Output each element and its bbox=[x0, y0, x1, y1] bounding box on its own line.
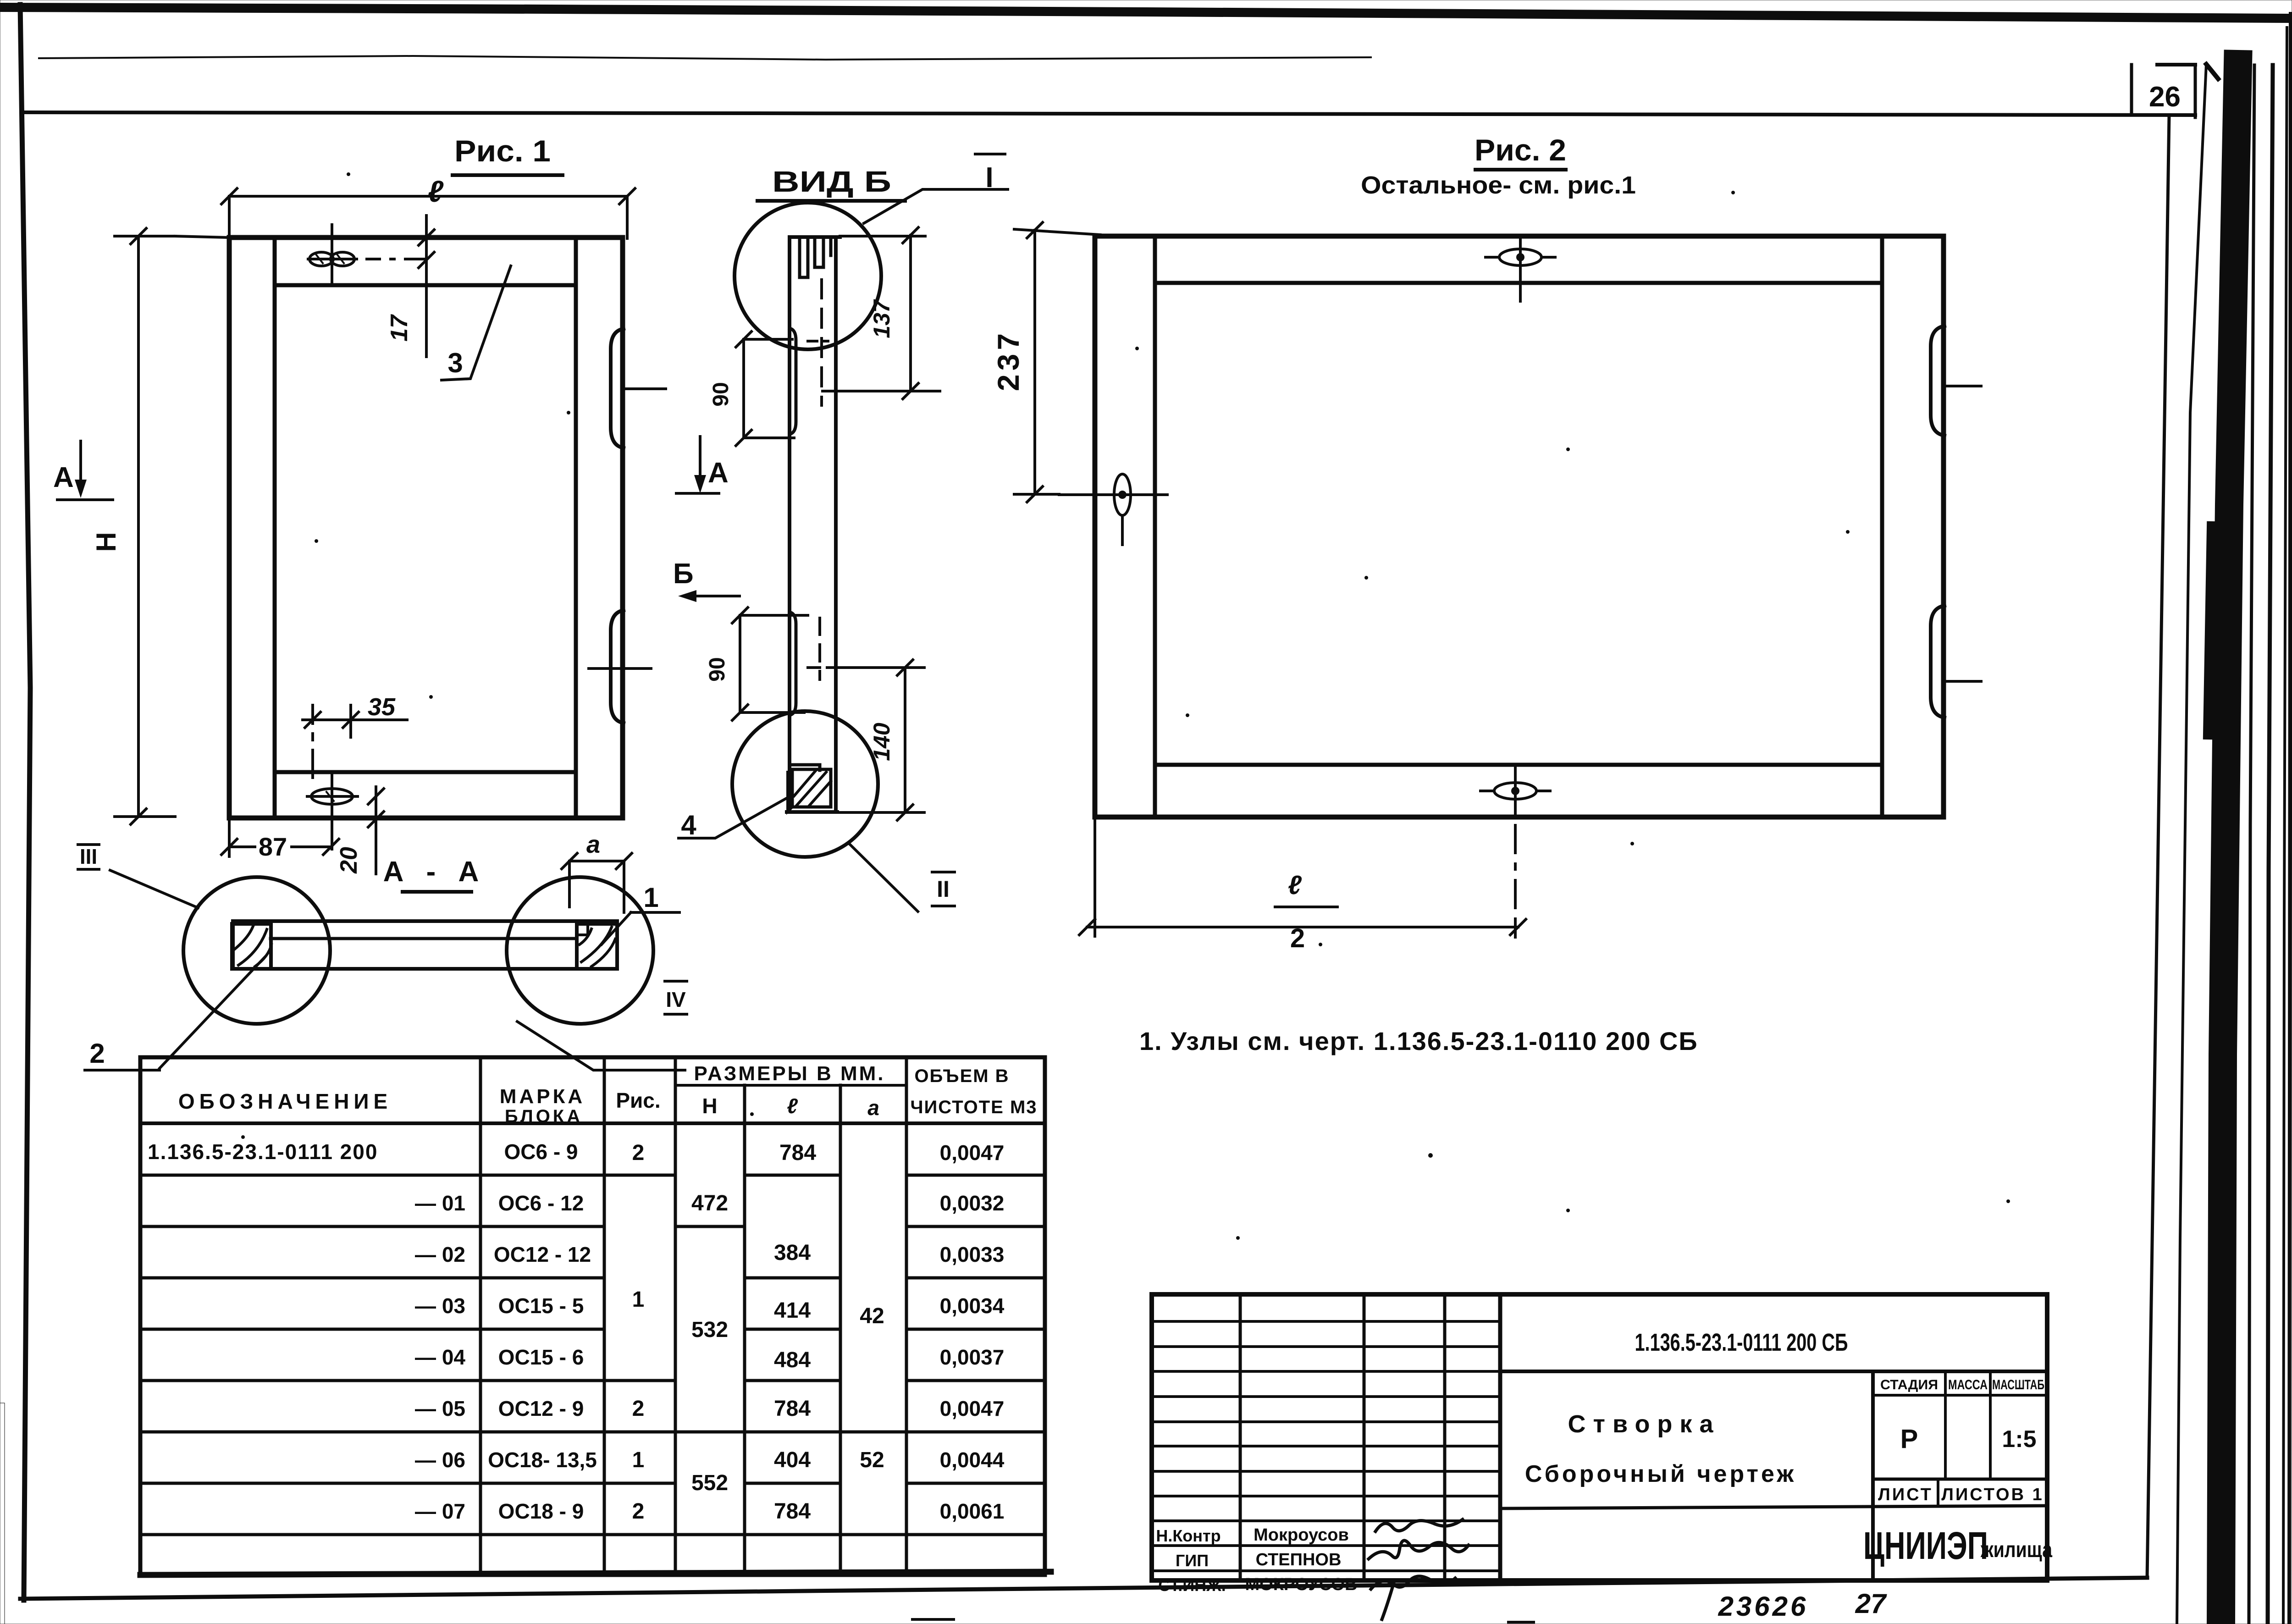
fig2 top hinge tick bbox=[1944, 385, 1981, 387]
view B dashed center line top bbox=[820, 280, 823, 405]
svg-text:ℓ: ℓ bbox=[428, 174, 444, 208]
svg-text:А - А: А - А bbox=[383, 856, 486, 888]
fig1 sash outer frame bbox=[229, 238, 623, 818]
svg-text:Мокроусов: Мокроусов bbox=[1254, 1525, 1349, 1545]
svg-text:484: 484 bbox=[774, 1348, 811, 1372]
table col2 data bbox=[488, 1140, 597, 1523]
bottom-left scan edge artifact bbox=[0, 1403, 5, 1624]
fig1 top fastener center line bbox=[331, 225, 333, 285]
fig2 opening bottom line bbox=[1155, 763, 1882, 767]
view B tenon comb bbox=[800, 237, 831, 277]
dimension L/2 line bbox=[1087, 926, 1518, 928]
svg-text:Остальное- см. рис.1: Остальное- см. рис.1 bbox=[1361, 171, 1636, 199]
dimension H extension to sash bbox=[175, 236, 229, 238]
svg-text:— 01: — 01 bbox=[415, 1191, 465, 1215]
svg-text:27: 27 bbox=[1855, 1588, 1887, 1619]
detail circle IV (A-A right) bbox=[507, 877, 653, 1024]
dimension L/2 extension right dashdot bbox=[1514, 825, 1517, 937]
svg-text:a: a bbox=[586, 831, 600, 858]
title block list row bottom bbox=[1500, 1506, 2047, 1508]
drawing frame right border bbox=[2147, 115, 2169, 1578]
svg-text:1: 1 bbox=[632, 1448, 645, 1472]
view B bar bottom edge bbox=[787, 810, 837, 814]
svg-text:— 06: — 06 bbox=[415, 1448, 465, 1472]
fig1 top hinge strap bbox=[611, 329, 624, 448]
table heavy bottom line bbox=[140, 1572, 1051, 1575]
svg-text:0,0034: 0,0034 bbox=[940, 1294, 1005, 1318]
svg-text:784: 784 bbox=[779, 1141, 816, 1165]
dimension 20 line bbox=[375, 787, 377, 874]
table column line 3 bbox=[674, 1057, 677, 1575]
svg-text:ЧИСТОТЕ М3: ЧИСТОТЕ М3 bbox=[910, 1097, 1037, 1117]
fig1 opening bottom line bbox=[275, 770, 576, 774]
table column line 2 bbox=[603, 1057, 606, 1575]
svg-text:0,0047: 0,0047 bbox=[940, 1141, 1005, 1165]
scan noise dots bbox=[241, 172, 2010, 1240]
table header bottom line bbox=[140, 1121, 1045, 1125]
leader 4 line bbox=[679, 795, 792, 838]
svg-text:МОКРОУСОВ: МОКРОУСОВ bbox=[1245, 1575, 1358, 1594]
table row line 7 bbox=[140, 1482, 1045, 1485]
table row line 6 bbox=[140, 1431, 1045, 1434]
A-A bar mid line bbox=[271, 937, 576, 940]
dimension 35 extension dashdot bbox=[313, 705, 351, 778]
svg-text:Створка: Створка bbox=[1568, 1410, 1721, 1438]
view B dash-dot mark bottom bbox=[808, 666, 845, 669]
fig2 left fastener bbox=[1059, 474, 1167, 545]
title block stage row bottom bbox=[1873, 1478, 2047, 1481]
section A marker left bbox=[53, 441, 113, 500]
dimension H bottom tick bbox=[115, 815, 175, 818]
svg-text:ОС18- 13,5: ОС18- 13,5 bbox=[488, 1448, 597, 1472]
svg-text:МАСШТАБ: МАСШТАБ bbox=[1992, 1377, 2044, 1392]
dimension 140 line bbox=[904, 668, 906, 812]
leader II line bbox=[849, 844, 918, 911]
table col6 data bbox=[860, 1304, 884, 1472]
svg-text:МАРКА: МАРКА bbox=[500, 1085, 585, 1108]
book spine slanted line bbox=[2177, 64, 2206, 1624]
table col4 data bbox=[691, 1191, 728, 1495]
fig2 top hinge strap bbox=[1931, 326, 1944, 436]
svg-text:БЛОКА: БЛОКА bbox=[505, 1106, 583, 1127]
svg-text:жилища: жилища bbox=[1980, 1538, 2052, 1562]
table row line 4 bbox=[140, 1328, 1045, 1331]
svg-text:ОС12 - 12: ОС12 - 12 bbox=[494, 1243, 591, 1266]
svg-text:ГИП: ГИП bbox=[1176, 1551, 1209, 1570]
view B glazing bead hatched bbox=[788, 769, 831, 812]
svg-text:0,0047: 0,0047 bbox=[940, 1397, 1005, 1420]
leader IV line bbox=[517, 1022, 685, 1070]
leader II label bbox=[932, 872, 955, 906]
view B dashed center line bottom bbox=[818, 618, 821, 679]
dimension 237 line bbox=[1033, 230, 1036, 494]
svg-text:Сборочный чертеж: Сборочный чертеж bbox=[1525, 1461, 1796, 1487]
dimension 90 top line bbox=[742, 339, 745, 438]
svg-text:A: A bbox=[53, 462, 74, 493]
title block right sub-block divider bbox=[1871, 1371, 1875, 1580]
svg-text:ЛИСТ: ЛИСТ bbox=[1878, 1485, 1933, 1504]
fig1 top fastener dash-dot line bbox=[367, 258, 426, 260]
svg-text:384: 384 bbox=[774, 1241, 811, 1265]
svg-text:ОС18 - 9: ОС18 - 9 bbox=[498, 1499, 584, 1523]
svg-text:2: 2 bbox=[632, 1141, 645, 1165]
leader III label bbox=[78, 845, 99, 869]
svg-text:Б: Б bbox=[673, 558, 694, 590]
table row line 3 bbox=[140, 1276, 1045, 1280]
fig1 top fastener ovals bbox=[308, 252, 357, 266]
A-A left glazing bead section bbox=[232, 924, 271, 969]
stamp row st.inzh signature bbox=[1371, 1576, 1455, 1619]
svg-text:1.136.5-23.1-0111 200 СБ: 1.136.5-23.1-0111 200 СБ bbox=[1635, 1329, 1848, 1356]
fig2 bottom hinge tick bbox=[1944, 680, 1981, 683]
svg-text:2: 2 bbox=[89, 1038, 105, 1069]
svg-text:1. Узлы см. черт. 1.136.5-: 1. Узлы см. черт. 1.136.5-23.1-0110 200 … bbox=[1139, 1027, 1698, 1055]
top scan edge bar bbox=[0, 7, 2292, 18]
book spine arrow mark bbox=[2206, 64, 2218, 79]
svg-text:42: 42 bbox=[860, 1304, 884, 1328]
table row line 5 bbox=[140, 1379, 1045, 1382]
leader IV label bbox=[665, 981, 687, 1014]
svg-text:17: 17 bbox=[386, 314, 413, 342]
svg-text:II: II bbox=[937, 876, 950, 902]
dimension L/2 extension left bbox=[1094, 817, 1096, 936]
svg-text:552: 552 bbox=[691, 1471, 728, 1495]
svg-text:ОС15 - 5: ОС15 - 5 bbox=[498, 1294, 584, 1318]
svg-text:0,0032: 0,0032 bbox=[940, 1191, 1005, 1215]
paper top edge scan line bbox=[39, 56, 1371, 60]
svg-text:ОС6 - 9: ОС6 - 9 bbox=[504, 1140, 578, 1164]
stamp row gip signature bbox=[1369, 1541, 1469, 1559]
table col7 data bbox=[940, 1141, 1005, 1523]
svg-text:1:5: 1:5 bbox=[2002, 1426, 2036, 1453]
title block doc number cell bottom bbox=[1500, 1370, 2047, 1373]
view B glazing bead step bbox=[790, 765, 820, 770]
drawing frame top border bbox=[22, 112, 2195, 115]
table row line 1 bbox=[140, 1174, 1045, 1177]
fig1 left edge extension down bbox=[228, 818, 231, 856]
dimension 137 extensions bbox=[823, 236, 940, 391]
fig1 bottom fastener center line bbox=[331, 772, 333, 849]
section A-A underline bbox=[403, 890, 471, 894]
dimension H top tick bbox=[115, 235, 175, 238]
dimension L extension right bbox=[626, 196, 629, 238]
leader I label bbox=[975, 154, 1005, 193]
leader 1 line bbox=[602, 912, 631, 945]
fig1 bottom hinge strap bbox=[611, 610, 624, 723]
dimension 90 bottom extensions bbox=[740, 615, 808, 713]
svg-text:414: 414 bbox=[774, 1298, 811, 1323]
dimension 17 line bbox=[425, 215, 428, 357]
svg-text:1.136.5-23.1-0111 200: 1.136.5-23.1-0111 200 bbox=[148, 1140, 378, 1164]
svg-text:1: 1 bbox=[643, 882, 658, 913]
dimension 237 extensions bbox=[1014, 229, 1100, 494]
svg-text:237: 237 bbox=[991, 330, 1025, 391]
svg-text:Н.Контр: Н.Контр bbox=[1156, 1526, 1221, 1545]
svg-text:784: 784 bbox=[774, 1397, 811, 1421]
fig2 left stile inner line bbox=[1153, 236, 1157, 817]
leader III line bbox=[110, 870, 198, 908]
table col5 data bbox=[774, 1141, 816, 1524]
svg-text:a: a bbox=[867, 1096, 879, 1120]
section B marker bbox=[673, 558, 740, 602]
leader 3 line bbox=[442, 266, 511, 380]
leader 1 underline bbox=[631, 911, 679, 914]
table col1 data bbox=[148, 1140, 465, 1523]
fig2 right stile inner line bbox=[1880, 236, 1884, 817]
view B dash-dot mark top bbox=[808, 340, 828, 342]
svg-text:A: A bbox=[708, 457, 729, 489]
title block stamp column lines bbox=[1240, 1294, 1445, 1580]
fig1 bottom hinge tick bbox=[589, 667, 651, 670]
view B bar left edge bbox=[788, 237, 791, 812]
bottom edge stray mark 2 bbox=[1508, 1621, 1534, 1624]
svg-text:— 03: — 03 bbox=[415, 1294, 465, 1318]
view B bottom hinge strap bbox=[790, 612, 796, 715]
svg-text:52: 52 bbox=[860, 1448, 884, 1472]
svg-text:— 02: — 02 bbox=[415, 1243, 465, 1266]
parts table bbox=[140, 1057, 1051, 1575]
view B bar top edge bbox=[790, 235, 840, 239]
leader I line bbox=[864, 189, 1008, 223]
svg-text:ВИД Б: ВИД Б bbox=[772, 165, 891, 198]
svg-text:90: 90 bbox=[709, 382, 733, 406]
svg-text:ОБЪЕМ В: ОБЪЕМ В bbox=[914, 1066, 1009, 1086]
svg-text:ЛИСТОВ 1: ЛИСТОВ 1 bbox=[1941, 1485, 2043, 1504]
book spine thin line 3 bbox=[2283, 28, 2287, 1624]
leader 2 underline bbox=[85, 1069, 160, 1072]
dimension L line bbox=[229, 195, 627, 198]
dimension H line bbox=[137, 236, 140, 817]
fig1 opening top line bbox=[275, 283, 576, 287]
title block stamp divider bbox=[1498, 1294, 1502, 1580]
svg-text:— 05: — 05 bbox=[415, 1397, 465, 1420]
fig2 opening top line bbox=[1155, 281, 1882, 285]
svg-text:1: 1 bbox=[632, 1287, 645, 1312]
dimension 90 top extensions bbox=[744, 339, 794, 438]
svg-text:ℓ: ℓ bbox=[1288, 870, 1302, 900]
book spine thick black band bbox=[2221, 64, 2238, 1624]
view B title underline bbox=[757, 199, 905, 203]
svg-text:Рис.: Рис. bbox=[616, 1088, 660, 1112]
fig1 right stile inner line bbox=[574, 238, 578, 818]
svg-text:137: 137 bbox=[869, 299, 895, 338]
dimension L/2 label bbox=[1275, 870, 1337, 953]
dimension 137 line bbox=[909, 235, 912, 391]
svg-text:140: 140 bbox=[869, 723, 895, 761]
svg-text:Р: Р bbox=[1900, 1424, 1918, 1454]
svg-text:2: 2 bbox=[632, 1397, 645, 1421]
stamp row n.kontr signature bbox=[1375, 1519, 1463, 1531]
svg-text:Н: Н bbox=[702, 1094, 717, 1118]
svg-text:0,0061: 0,0061 bbox=[940, 1499, 1005, 1523]
table column line 4 bbox=[743, 1085, 746, 1575]
title block stage column lines bbox=[1945, 1371, 1990, 1479]
title block list column line bbox=[1937, 1479, 1939, 1506]
svg-text:РАЗМЕРЫ В ММ.: РАЗМЕРЫ В ММ. bbox=[694, 1062, 885, 1085]
svg-text:20: 20 bbox=[336, 847, 362, 874]
svg-text:IV: IV bbox=[666, 988, 686, 1011]
svg-text:26: 26 bbox=[2149, 81, 2181, 113]
svg-text:МАССА: МАССА bbox=[1948, 1377, 1988, 1392]
dimension a line bbox=[569, 860, 624, 862]
fig2 top fastener bbox=[1486, 236, 1555, 301]
table column line 5 bbox=[839, 1085, 842, 1575]
drawing frame bottom border bbox=[20, 1578, 2147, 1599]
dimension 90 bottom line bbox=[739, 615, 741, 713]
fig1 bottom fastener oval bbox=[307, 789, 358, 804]
table column line 6 bbox=[905, 1057, 908, 1575]
svg-text:ОС15 - 6: ОС15 - 6 bbox=[498, 1345, 584, 1369]
svg-text:ОС12 - 9: ОС12 - 9 bbox=[498, 1397, 584, 1420]
book spine band smudge bbox=[2209, 527, 2213, 734]
table column line 1 bbox=[479, 1057, 482, 1575]
fig1 left stile inner line bbox=[273, 238, 277, 818]
table sizes sub-header line bbox=[675, 1084, 906, 1087]
dimension L extension left bbox=[228, 196, 231, 238]
svg-text:3: 3 bbox=[447, 348, 463, 378]
fig2 bottom hinge strap bbox=[1931, 606, 1944, 718]
figure 2 title underline bbox=[1475, 168, 1566, 171]
table row line 8 bbox=[140, 1533, 1045, 1536]
svg-text:4: 4 bbox=[681, 810, 696, 840]
book spine thin line 1 bbox=[2249, 65, 2254, 1624]
figure 1 title underline bbox=[453, 173, 563, 177]
svg-text:2: 2 bbox=[1290, 923, 1305, 953]
dimension 87 line bbox=[229, 845, 331, 848]
svg-text:0,0033: 0,0033 bbox=[940, 1243, 1005, 1266]
svg-text:— 04: — 04 bbox=[415, 1345, 465, 1369]
svg-text:III: III bbox=[80, 845, 97, 868]
fig1 top hinge tick bbox=[623, 387, 666, 390]
svg-text:Рис. 1: Рис. 1 bbox=[454, 134, 551, 168]
left scan edge line bbox=[20, 5, 30, 1600]
title block outer border bbox=[1152, 1294, 2047, 1580]
svg-text:ОС6 - 12: ОС6 - 12 bbox=[498, 1191, 584, 1215]
svg-text:ℓ: ℓ bbox=[787, 1094, 798, 1118]
svg-text:СТЕПНОВ: СТЕПНОВ bbox=[1256, 1550, 1342, 1569]
A-A right glazing bead section bbox=[577, 924, 617, 969]
sheet number box top right bbox=[2132, 65, 2195, 117]
dimension a extensions bbox=[569, 861, 624, 912]
svg-text:Рис. 2: Рис. 2 bbox=[1475, 133, 1566, 167]
svg-text:90: 90 bbox=[705, 657, 729, 681]
svg-text:87: 87 bbox=[259, 832, 287, 861]
svg-text:ОБОЗНАЧЕНИЕ: ОБОЗНАЧЕНИЕ bbox=[178, 1089, 392, 1113]
view B top hinge strap bbox=[790, 328, 796, 434]
view B bar right edge bbox=[834, 237, 838, 812]
svg-text:ЦНИИЭП: ЦНИИЭП bbox=[1863, 1524, 1988, 1567]
svg-text:2: 2 bbox=[632, 1499, 645, 1524]
A-A bar outline bbox=[233, 921, 617, 969]
fig2 sash outer frame bbox=[1095, 236, 1944, 817]
table row line 2 bbox=[140, 1225, 1045, 1228]
svg-text:0,0037: 0,0037 bbox=[940, 1345, 1005, 1369]
table outer border bbox=[140, 1057, 1045, 1575]
book spine thin line 2 bbox=[2268, 65, 2273, 1624]
svg-text:— 07: — 07 bbox=[415, 1499, 465, 1523]
svg-text:23626: 23626 bbox=[1718, 1591, 1809, 1622]
svg-text:СТАДИЯ: СТАДИЯ bbox=[1880, 1377, 1938, 1392]
svg-text:532: 532 bbox=[691, 1318, 728, 1342]
dimension 140 extensions bbox=[801, 668, 924, 812]
detail circle III (A-A left) bbox=[183, 877, 330, 1024]
svg-text:35: 35 bbox=[368, 693, 396, 721]
title block stage header row line bbox=[1873, 1394, 2047, 1397]
svg-text:H: H bbox=[91, 532, 122, 552]
table col3 data bbox=[632, 1141, 645, 1524]
fig2 bottom fastener bbox=[1480, 765, 1550, 817]
svg-text:472: 472 bbox=[691, 1191, 728, 1215]
bottom edge stray mark 1 bbox=[912, 1618, 954, 1621]
svg-text:СТ.ИНЖ.: СТ.ИНЖ. bbox=[1158, 1576, 1226, 1595]
detail circle II (view B bottom) bbox=[732, 711, 878, 857]
detail circle I (view B top) bbox=[735, 203, 881, 349]
leader 2 line bbox=[160, 957, 265, 1068]
svg-text:0,0044: 0,0044 bbox=[940, 1448, 1005, 1472]
dimension 35 line bbox=[303, 718, 407, 721]
svg-text:784: 784 bbox=[774, 1499, 811, 1524]
title block stamp row lines bbox=[1152, 1321, 1500, 1571]
section A marker middle bbox=[676, 436, 729, 493]
book spine right edge line bbox=[2289, 14, 2291, 1624]
svg-text:I: I bbox=[985, 162, 993, 193]
svg-text:404: 404 bbox=[774, 1448, 811, 1472]
